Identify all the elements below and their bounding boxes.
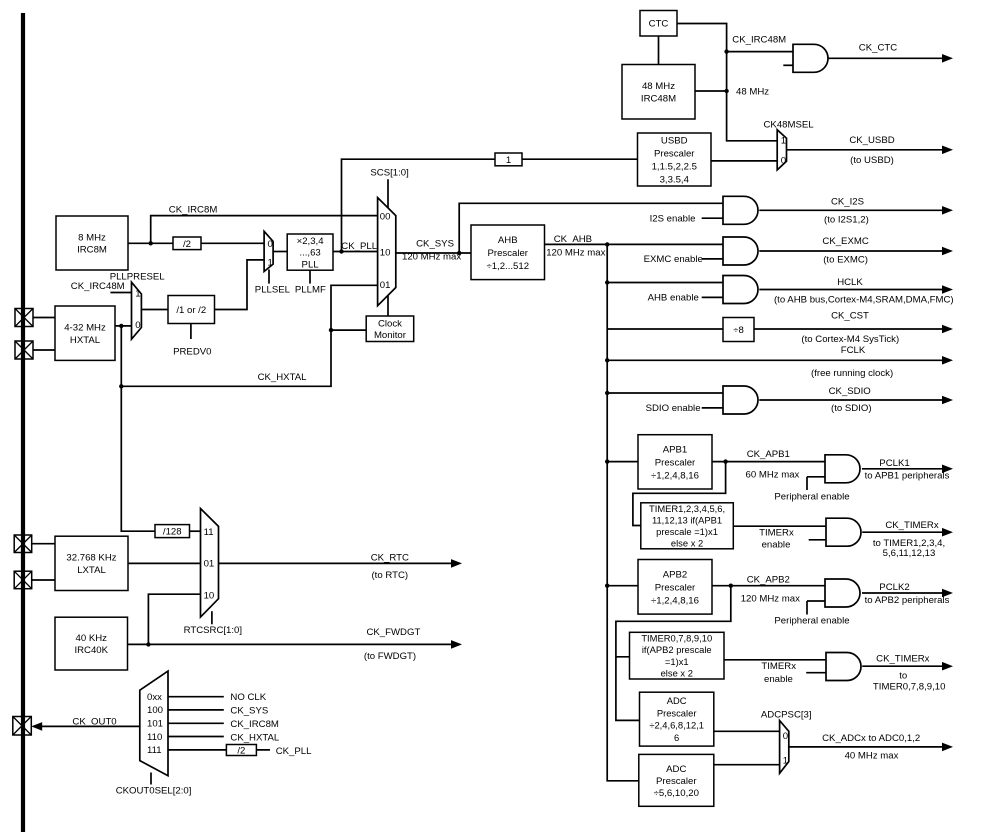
- junction HXTAL output: [119, 324, 123, 328]
- svg-text:1: 1: [783, 756, 788, 767]
- and-gate APB1 peripheral enable: [807, 455, 860, 490]
- svg-text:÷5,6,10,20: ÷5,6,10,20: [654, 788, 699, 799]
- wire APB1 to TIMER1 multiplier: [633, 462, 726, 526]
- svg-text:1: 1: [781, 136, 786, 147]
- svg-text:/128: /128: [163, 527, 182, 538]
- svg-text:to APB1 peripherals: to APB1 peripherals: [865, 471, 950, 482]
- svg-text:enable: enable: [762, 539, 791, 550]
- arrow CK_TIMERx (APB1): [862, 520, 953, 549]
- pad OSCIN (HXTAL): [15, 309, 33, 327]
- label CK_SYS (sel): [230, 706, 268, 717]
- svg-text:CK_USBD: CK_USBD: [849, 135, 894, 146]
- svg-text:101: 101: [147, 719, 163, 730]
- svg-text:AHB: AHB: [498, 235, 518, 246]
- svg-text:120 MHz max: 120 MHz max: [402, 252, 461, 263]
- svg-text:else x 2: else x 2: [661, 667, 693, 678]
- svg-text:1: 1: [268, 257, 273, 268]
- svg-text:120 MHz max: 120 MHz max: [546, 247, 605, 258]
- svg-text:CK_SYS: CK_SYS: [230, 706, 268, 717]
- junction CK_HXTAL column: [119, 384, 123, 388]
- arrow CK_TIMERx (APB2): [862, 654, 953, 682]
- arrow FCLK: [607, 345, 953, 379]
- svg-text:/2: /2: [237, 746, 245, 757]
- block ADC Prescaler (AHB): [639, 754, 714, 806]
- wire mux input NO CLK: [168, 696, 224, 698]
- block predivider /1 or /2: [168, 296, 215, 324]
- svg-text:Prescaler: Prescaler: [654, 149, 695, 160]
- block divider /128: [155, 525, 190, 538]
- label PLLSEL: [255, 285, 291, 296]
- svg-text:TIMER1,2,3,4,5,6,: TIMER1,2,3,4,5,6,: [649, 503, 725, 514]
- svg-text:else x 2: else x 2: [671, 538, 703, 549]
- wire pad to LXTAL top: [32, 543, 55, 545]
- block CTC: [640, 11, 677, 37]
- wire mux input CK_IRC8M: [168, 722, 224, 724]
- wire PLLPRESEL to /1 or /2: [141, 309, 168, 311]
- svg-text:Prescaler: Prescaler: [487, 248, 528, 259]
- block divider /2: [173, 237, 201, 250]
- arrow CK_EXMC: [759, 236, 953, 265]
- svg-text:(to SDIO): (to SDIO): [831, 403, 872, 414]
- svg-text:(to AHB bus,Cortex-M4,SRAM,DMA: (to AHB bus,Cortex-M4,SRAM,DMA,FMC): [774, 294, 954, 305]
- arrow CK_RTC: [219, 552, 463, 581]
- junction IRC8M output: [149, 241, 153, 245]
- svg-text:40 KHz: 40 KHz: [76, 633, 108, 644]
- svg-text:CK_IRC48M: CK_IRC48M: [732, 34, 786, 45]
- svg-text:=1)x1: =1)x1: [665, 656, 689, 667]
- label TIMER0,7,8,9,10: [873, 681, 946, 692]
- svg-text:AHB enable: AHB enable: [648, 293, 699, 304]
- svg-text:1: 1: [506, 155, 511, 166]
- junction CK_AHB column top: [605, 242, 609, 246]
- svg-text:ADCPSC[3]: ADCPSC[3]: [761, 709, 812, 720]
- label 120 MHz max (apb2): [741, 594, 800, 605]
- label CK_IRC48M (input): [71, 281, 125, 292]
- svg-text:÷1,2...512: ÷1,2...512: [486, 261, 529, 272]
- svg-text:IRC48M: IRC48M: [641, 93, 676, 104]
- svg-text:(to Cortex-M4 SysTick): (to Cortex-M4 SysTick): [801, 334, 899, 345]
- svg-text:LXTAL: LXTAL: [77, 565, 106, 576]
- svg-text:100: 100: [147, 705, 163, 716]
- block AHB Prescaler: [471, 225, 545, 280]
- mux PLLSEL: [264, 231, 273, 283]
- wire HXTAL column to /128: [121, 386, 155, 531]
- svg-text:HCLK: HCLK: [837, 277, 863, 288]
- svg-text:÷1,2,4,8,16: ÷1,2,4,8,16: [651, 470, 699, 481]
- label CK_SYS: [416, 238, 454, 249]
- svg-text:×2,3,4: ×2,3,4: [297, 236, 325, 247]
- wire mux input CK_HXTAL: [168, 736, 224, 738]
- wire to clock monitor: [331, 329, 366, 331]
- wire ADC prescaler AHB to mux 1: [714, 764, 780, 766]
- svg-text:CK_IRC48M: CK_IRC48M: [71, 281, 125, 292]
- wire APB2 to TIMER0/ADC: [616, 586, 731, 721]
- svg-text:TIMERx: TIMERx: [759, 527, 794, 538]
- arrow CK_SDIO: [759, 386, 953, 414]
- svg-text:IRC8M: IRC8M: [77, 245, 107, 256]
- svg-text:40 MHz max: 40 MHz max: [845, 751, 899, 762]
- label CK_APB2: [747, 575, 790, 586]
- svg-text:SCS[1:0]: SCS[1:0]: [370, 168, 408, 179]
- pad OSC32OUT (LXTAL): [14, 571, 32, 589]
- wire to AHB gate: [607, 282, 723, 284]
- wire USBD prescaler to mux 0: [711, 160, 777, 162]
- block APB1 Prescaler: [638, 435, 712, 489]
- label Peripheral enable (APB2): [774, 616, 849, 627]
- svg-text:0xx: 0xx: [147, 692, 162, 703]
- block 4-32 MHz HXTAL: [55, 306, 115, 360]
- svg-text:CK_RTC: CK_RTC: [371, 552, 409, 563]
- svg-text:11: 11: [204, 527, 214, 538]
- and-gate CTC enable: [783, 44, 828, 72]
- wire to SDIO gate: [607, 392, 723, 394]
- svg-text:CK_FWDGT: CK_FWDGT: [366, 627, 420, 638]
- label PLLMF: [295, 285, 326, 296]
- pin bus (thick vertical line): [21, 13, 25, 832]
- arrow CK_CTC: [829, 42, 954, 62]
- svg-text:Peripheral enable: Peripheral enable: [774, 491, 849, 502]
- svg-text:to APB2 peripherals: to APB2 peripherals: [865, 595, 950, 606]
- label SDIO enable: [646, 403, 701, 414]
- svg-text:0: 0: [783, 731, 788, 742]
- wire CK_PLL to SCS mux 10: [333, 251, 378, 253]
- svg-text:PLL: PLL: [302, 259, 320, 270]
- label CK48MSEL: [764, 119, 815, 130]
- svg-text:5,6,11,12,13: 5,6,11,12,13: [883, 548, 936, 559]
- svg-text:÷2,4,6,8,12,1: ÷2,4,6,8,12,1: [649, 720, 704, 731]
- svg-text:TIMERx: TIMERx: [761, 661, 796, 672]
- arrow HCLK: [759, 277, 953, 305]
- svg-text:CK_CST: CK_CST: [831, 311, 869, 322]
- wire to CST divider: [607, 328, 723, 330]
- svg-text:3,3.5,4: 3,3.5,4: [660, 175, 690, 186]
- arrow CK_ADCx: [789, 733, 953, 762]
- junction APB2 row: [605, 584, 609, 588]
- wire CK_HXTAL net: [121, 285, 377, 386]
- wire mux input CK_SYS: [168, 709, 224, 711]
- wire CK_SYS: [396, 252, 471, 254]
- svg-text:0: 0: [135, 320, 140, 331]
- svg-text:10: 10: [204, 590, 215, 601]
- wire pad to LXTAL bottom: [32, 579, 55, 581]
- label PREDV0: [173, 347, 211, 358]
- svg-text:4-32 MHz: 4-32 MHz: [64, 323, 106, 334]
- wire IRC40K output: [128, 643, 149, 645]
- svg-text:Peripheral enable: Peripheral enable: [774, 616, 849, 627]
- svg-text:CK_IRC8M: CK_IRC8M: [169, 205, 218, 216]
- svg-text:1,1.5,2,2.5: 1,1.5,2,2.5: [652, 162, 697, 173]
- block multiplier 1: [495, 153, 522, 166]
- and-gate EXMC enable: [702, 237, 758, 265]
- label CKOUT0SEL[2:0]: [116, 785, 192, 796]
- wire to APB2 prescaler: [607, 585, 638, 587]
- svg-text:CK_APB1: CK_APB1: [747, 449, 790, 460]
- wire CK_AHB: [545, 243, 724, 245]
- svg-text:CK_HXTAL: CK_HXTAL: [230, 732, 280, 743]
- svg-text:NO CLK: NO CLK: [230, 692, 266, 703]
- svg-text:CK_AHB: CK_AHB: [554, 234, 592, 245]
- svg-text:CK_PLL: CK_PLL: [276, 746, 312, 757]
- wire mux input CK_PLL via /2: [168, 749, 270, 751]
- svg-text:Prescaler: Prescaler: [656, 776, 697, 787]
- arrow CK_USBD: [787, 135, 954, 166]
- svg-text:(to I2S1,2): (to I2S1,2): [824, 215, 869, 226]
- wire to APB1 prescaler: [607, 461, 638, 463]
- label CK_IRC8M: [169, 205, 218, 216]
- label EXMC enable: [644, 254, 703, 265]
- junction SDIO row: [605, 391, 609, 395]
- label CK_APB1: [747, 449, 790, 460]
- svg-text:CK48MSEL: CK48MSEL: [764, 119, 815, 130]
- svg-text:(to EXMC): (to EXMC): [823, 255, 868, 266]
- pad OSC32IN (LXTAL): [14, 535, 32, 553]
- arrow PCLK1: [862, 458, 953, 482]
- and-gate TIMERx enable (APB1): [809, 518, 861, 546]
- label TIMERx (APB1): [759, 527, 794, 538]
- label CK_HXTAL: [258, 372, 308, 383]
- label 120 MHz max (ahb): [546, 247, 605, 258]
- svg-text:11,12,13 if(APB1: 11,12,13 if(APB1: [652, 514, 722, 525]
- wire CK_IRC48M stub to PLLPRESEL 1: [110, 292, 131, 294]
- label CK_PLL (sel): [276, 746, 312, 757]
- label 48 MHz: [736, 86, 769, 97]
- label CK_PLL: [341, 241, 377, 252]
- svg-text:01: 01: [204, 559, 215, 570]
- svg-text:CK_SYS: CK_SYS: [416, 238, 454, 249]
- junction CK_IRC48M / gate: [724, 49, 728, 53]
- wire IRC40K to RTC mux 10: [148, 594, 200, 644]
- svg-text:I2S enable: I2S enable: [650, 214, 696, 225]
- svg-text:10: 10: [380, 248, 391, 259]
- svg-text:...,63: ...,63: [299, 248, 320, 259]
- wire /128 to RTC mux 11: [190, 530, 201, 532]
- and-gate SDIO enable: [702, 386, 758, 414]
- block 48 MHz IRC48M: [622, 65, 695, 120]
- mux RTCSRC: [201, 509, 219, 625]
- svg-text:IRC40K: IRC40K: [74, 645, 108, 656]
- mux SCS: [378, 179, 396, 316]
- wire CK_APB1: [712, 461, 825, 463]
- wire LXTAL to RTC mux 01: [128, 562, 201, 564]
- svg-text:CTC: CTC: [649, 19, 669, 30]
- junction 48 MHz tap: [724, 89, 728, 93]
- svg-text:/1 or /2: /1 or /2: [176, 305, 206, 316]
- junction clock monitor tap: [329, 328, 333, 332]
- junction IRC40K tap: [146, 642, 150, 646]
- mux CKOUT0SEL: [140, 671, 168, 784]
- svg-text:EXMC enable: EXMC enable: [644, 254, 703, 265]
- svg-text:CK_PLL: CK_PLL: [341, 241, 377, 252]
- svg-text:TIMER0,7,8,9,10: TIMER0,7,8,9,10: [873, 681, 946, 692]
- wire pad to HXTAL bottom: [33, 349, 55, 351]
- svg-text:0: 0: [781, 156, 786, 167]
- junction APB1 row: [605, 459, 609, 463]
- wire HXTAL to PLLPRESEL 0: [115, 325, 132, 327]
- pad OSCOUT (HXTAL): [15, 341, 33, 359]
- svg-text:÷1,2,4,8,16: ÷1,2,4,8,16: [651, 595, 699, 606]
- svg-text:Monitor: Monitor: [374, 330, 407, 341]
- junction AHB enable row: [605, 280, 609, 284]
- svg-text:CK_HXTAL: CK_HXTAL: [258, 372, 308, 383]
- block ADC Prescaler (APB2): [640, 692, 714, 746]
- pad CK_OUT0: [13, 717, 32, 736]
- svg-text:CK_ADCx to ADC0,1,2: CK_ADCx to ADC0,1,2: [822, 733, 920, 744]
- label SCS[1:0]: [370, 168, 408, 179]
- svg-text:32.768 KHz: 32.768 KHz: [66, 553, 116, 564]
- svg-text:111: 111: [147, 745, 162, 756]
- svg-text:CK_TIMERx: CK_TIMERx: [876, 654, 930, 665]
- arrow PCLK2: [862, 582, 953, 606]
- svg-text:CK_APB2: CK_APB2: [747, 575, 790, 586]
- svg-text:APB2: APB2: [663, 569, 688, 580]
- label Peripheral enable (APB1): [774, 491, 849, 502]
- svg-text:Clock: Clock: [378, 318, 402, 329]
- and-gate TIMERx enable (APB2): [806, 653, 861, 681]
- junction CK_PLL: [339, 249, 343, 253]
- svg-text:PCLK1: PCLK1: [879, 458, 909, 469]
- wire CTC to CK_IRC48M net: [677, 24, 777, 141]
- wire CK_PLL riser to 1-box and USBD prescaler: [342, 159, 638, 251]
- svg-text:ADC: ADC: [666, 764, 686, 775]
- svg-text:/2: /2: [183, 239, 191, 250]
- wire to CTC and-gate: [727, 51, 793, 53]
- label enable (APB1): [762, 539, 791, 550]
- svg-text:1: 1: [135, 289, 140, 300]
- svg-text:÷8: ÷8: [733, 325, 744, 336]
- label RTCSRC[1:0]: [184, 625, 242, 636]
- svg-text:PLLSEL: PLLSEL: [255, 285, 291, 296]
- label CK_AHB: [554, 234, 592, 245]
- block 8 MHz IRC8M: [56, 216, 128, 270]
- svg-text:Prescaler: Prescaler: [657, 707, 697, 718]
- arrow CK_CST: [754, 311, 953, 346]
- svg-text:(free running clock): (free running clock): [811, 368, 893, 379]
- wire /1 or /2 to PLLSEL mux 1: [215, 260, 265, 310]
- svg-text:SDIO enable: SDIO enable: [646, 403, 701, 414]
- label ADCPSC[3]: [761, 709, 812, 720]
- svg-text:0: 0: [268, 239, 273, 250]
- svg-text:to: to: [899, 671, 907, 682]
- mux ADCPSC: [780, 721, 789, 774]
- and-gate APB2 peripheral enable: [807, 579, 860, 615]
- wire PLLSEL to PLL: [273, 251, 287, 253]
- svg-text:if(APB2 prescale: if(APB2 prescale: [642, 644, 712, 655]
- svg-text:enable: enable: [764, 674, 793, 685]
- label TIMERx (APB2): [761, 661, 796, 672]
- junction CK_APB2 tap: [729, 584, 733, 588]
- block USBD Prescaler: [638, 133, 712, 186]
- and-gate AHB enable: [702, 276, 758, 304]
- svg-text:PCLK2: PCLK2: [879, 582, 909, 593]
- junction CK_SYS to I2S: [457, 251, 461, 255]
- svg-text:RTCSRC[1:0]: RTCSRC[1:0]: [184, 625, 242, 636]
- block 32.768 KHz LXTAL: [55, 536, 128, 590]
- label PLLPRESEL: [110, 272, 166, 283]
- arrow CK_I2S: [759, 197, 953, 226]
- block divider /2 (ckout): [226, 745, 256, 757]
- label CK_IRC8M (sel): [230, 719, 279, 730]
- mux CK48MSEL: [777, 130, 786, 170]
- svg-text:CK_SDIO: CK_SDIO: [829, 386, 871, 397]
- svg-text:CK_OUT0: CK_OUT0: [72, 716, 116, 727]
- svg-text:prescale =1)x1: prescale =1)x1: [656, 526, 718, 537]
- svg-text:PREDV0: PREDV0: [173, 347, 211, 358]
- svg-text:FCLK: FCLK: [841, 345, 866, 356]
- svg-text:CK_IRC8M: CK_IRC8M: [230, 719, 279, 730]
- wire CK_AHB column: [607, 244, 639, 780]
- svg-text:TIMER0,7,8,9,10: TIMER0,7,8,9,10: [641, 633, 712, 644]
- svg-text:CK_EXMC: CK_EXMC: [822, 236, 868, 247]
- label CK_HXTAL (sel): [230, 732, 280, 743]
- svg-text:00: 00: [380, 211, 391, 222]
- wire IRC48M output: [695, 90, 727, 92]
- wire IRC8M output to /2: [128, 242, 173, 244]
- arrow CK_FWDGT: [148, 627, 462, 662]
- svg-text:8 MHz: 8 MHz: [78, 232, 106, 243]
- wire pad to HXTAL top: [33, 317, 55, 319]
- svg-text:6: 6: [674, 732, 679, 743]
- junction FCLK row: [605, 358, 609, 362]
- wire CTC to IRC48M: [658, 36, 660, 65]
- wire TIMER1 multiplier to gate: [733, 525, 826, 527]
- wire CK_SYS to I2S gate: [459, 203, 723, 253]
- block divider +8 (SysTick): [723, 318, 754, 342]
- svg-text:APB1: APB1: [663, 444, 688, 455]
- and-gate I2S enable: [702, 196, 758, 224]
- block Clock Monitor: [366, 316, 414, 342]
- wire CK_APB2: [712, 585, 825, 587]
- svg-text:01: 01: [380, 280, 391, 291]
- block TIMER1 multiplier: [641, 503, 734, 549]
- wire CK_IRC8M to SCS mux 00: [151, 216, 378, 244]
- svg-text:110: 110: [147, 732, 162, 743]
- label 60 MHz max: [746, 470, 800, 481]
- wire ADC prescaler APB2 to mux 0: [714, 730, 780, 732]
- wire PREDV0 stub: [190, 324, 192, 340]
- block TIMER0 multiplier: [630, 632, 725, 679]
- svg-text:Prescaler: Prescaler: [655, 582, 696, 593]
- block 40 KHz IRC40K: [55, 617, 128, 670]
- block PLL x2,3,4...63: [287, 234, 333, 270]
- wire PLLMF stub: [309, 270, 311, 283]
- svg-text:CKOUT0SEL[2:0]: CKOUT0SEL[2:0]: [116, 785, 192, 796]
- svg-text:HXTAL: HXTAL: [70, 335, 101, 346]
- svg-text:PLLMF: PLLMF: [295, 285, 326, 296]
- svg-text:CK_CTC: CK_CTC: [859, 42, 897, 53]
- svg-text:(to RTC): (to RTC): [371, 570, 408, 581]
- svg-text:Prescaler: Prescaler: [655, 457, 696, 468]
- wire /2 to PLLSEL mux 0: [201, 242, 264, 244]
- wire TIMER0 multiplier to gate: [724, 659, 826, 661]
- svg-text:48 MHz: 48 MHz: [642, 81, 675, 92]
- arrow CK_OUT0: [31, 716, 140, 730]
- label enable (APB2): [764, 674, 793, 685]
- label 120 MHz max (sys): [402, 252, 461, 263]
- svg-text:USBD: USBD: [661, 136, 688, 147]
- label I2S enable: [650, 214, 696, 225]
- junction CK_APB1 tap: [723, 459, 727, 463]
- svg-text:(to USBD): (to USBD): [850, 155, 894, 166]
- label NO CLK: [230, 692, 266, 703]
- label 5,6,11,12,13: [883, 548, 936, 559]
- svg-text:48 MHz: 48 MHz: [736, 86, 769, 97]
- svg-text:CK_I2S: CK_I2S: [831, 197, 864, 208]
- svg-text:CK_TIMERx: CK_TIMERx: [885, 520, 939, 531]
- svg-text:(to FWDGT): (to FWDGT): [364, 651, 416, 662]
- mux PLLPRESEL: [132, 282, 142, 339]
- svg-text:ADC: ADC: [667, 695, 687, 706]
- svg-text:120 MHz max: 120 MHz max: [741, 594, 800, 605]
